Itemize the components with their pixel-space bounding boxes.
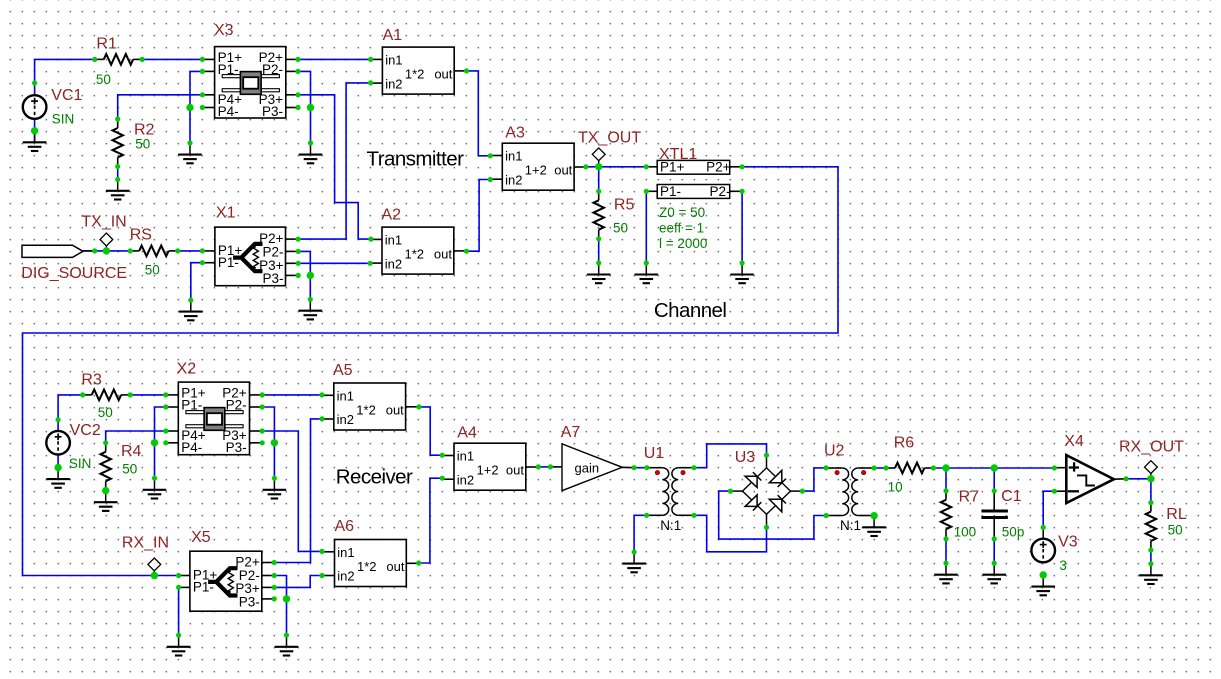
svg-text:SIN: SIN: [52, 112, 75, 127]
svg-text:VC1: VC1: [51, 87, 82, 104]
svg-text:P2-: P2-: [262, 62, 283, 77]
svg-text:in2: in2: [385, 256, 402, 271]
svg-text:50: 50: [98, 405, 113, 420]
svg-text:100: 100: [954, 525, 977, 540]
svg-text:in2: in2: [457, 472, 474, 487]
svg-text:50: 50: [613, 221, 628, 236]
svg-text:RL: RL: [1166, 506, 1187, 523]
svg-text:A2: A2: [381, 207, 401, 224]
svg-text:R5: R5: [614, 197, 635, 214]
svg-text:P3-: P3-: [262, 271, 283, 286]
svg-text:in1: in1: [385, 53, 402, 68]
svg-text:out: out: [554, 163, 572, 178]
svg-text:in1: in1: [457, 449, 474, 464]
svg-text:TX_IN: TX_IN: [81, 214, 126, 231]
svg-text:X4: X4: [1064, 433, 1084, 450]
svg-text:P3-: P3-: [226, 440, 247, 455]
svg-text:Receiver: Receiver: [336, 465, 413, 488]
svg-text:RX_OUT: RX_OUT: [1119, 438, 1184, 455]
svg-text:out: out: [506, 463, 524, 478]
svg-text:in2: in2: [337, 412, 354, 427]
svg-text:P3-: P3-: [262, 104, 283, 119]
svg-text:out: out: [386, 559, 404, 574]
svg-text:out: out: [434, 67, 452, 82]
svg-text:X2: X2: [177, 361, 197, 378]
svg-text:in2: in2: [385, 76, 402, 91]
svg-text:A6: A6: [335, 518, 355, 535]
svg-text:P1-: P1-: [218, 62, 239, 77]
svg-text:50: 50: [135, 137, 150, 152]
svg-text:50: 50: [1168, 523, 1183, 538]
svg-text:Transmitter: Transmitter: [367, 148, 465, 171]
svg-text:l = 2000: l = 2000: [659, 236, 707, 251]
svg-text:in2: in2: [505, 172, 522, 187]
svg-text:A4: A4: [457, 425, 477, 442]
svg-text:Z0 = 50: Z0 = 50: [659, 205, 705, 220]
svg-text:P1-: P1-: [218, 255, 239, 270]
svg-text:in1: in1: [505, 149, 522, 164]
svg-text:RS: RS: [130, 227, 152, 244]
svg-text:in2: in2: [337, 569, 354, 584]
svg-text:A5: A5: [333, 362, 353, 379]
svg-text:VC2: VC2: [70, 422, 101, 439]
svg-text:out: out: [386, 403, 404, 418]
svg-text:DIG_SOURCE: DIG_SOURCE: [21, 265, 127, 282]
svg-text:A1: A1: [383, 27, 403, 44]
svg-text:P2-: P2-: [226, 397, 247, 412]
svg-text:1*2: 1*2: [356, 403, 376, 418]
svg-text:N:1: N:1: [660, 518, 681, 533]
svg-text:in1: in1: [385, 233, 402, 248]
svg-text:X1: X1: [216, 205, 236, 222]
svg-text:Channel: Channel: [654, 299, 727, 322]
svg-text:50: 50: [96, 72, 111, 87]
svg-text:in1: in1: [337, 545, 354, 560]
svg-text:50: 50: [145, 263, 160, 278]
svg-text:U3: U3: [735, 449, 756, 466]
svg-text:U2: U2: [824, 443, 845, 460]
svg-text:X5: X5: [191, 529, 211, 546]
svg-text:gain: gain: [575, 460, 600, 475]
svg-text:3: 3: [1059, 558, 1067, 573]
svg-text:P1-: P1-: [181, 397, 202, 412]
svg-text:1*2: 1*2: [357, 559, 377, 574]
svg-text:P3-: P3-: [239, 595, 260, 610]
svg-text:1*2: 1*2: [405, 67, 425, 82]
svg-text:TX_OUT: TX_OUT: [578, 130, 641, 147]
svg-text:U1: U1: [644, 445, 665, 462]
svg-text:1+2: 1+2: [525, 163, 547, 178]
svg-text:A7: A7: [561, 424, 581, 441]
svg-text:10: 10: [888, 480, 903, 495]
svg-text:R7: R7: [959, 489, 980, 506]
svg-text:SIN: SIN: [69, 456, 92, 471]
svg-text:P2+: P2+: [706, 159, 731, 174]
svg-text:XTL1: XTL1: [659, 146, 697, 163]
svg-text:N:1: N:1: [840, 518, 861, 533]
svg-text:A3: A3: [505, 125, 525, 142]
svg-text:1+2: 1+2: [477, 463, 499, 478]
svg-text:X3: X3: [214, 22, 234, 39]
svg-text:eeff = 1: eeff = 1: [659, 221, 704, 236]
svg-text:R1: R1: [96, 36, 117, 53]
svg-text:50p: 50p: [1002, 525, 1025, 540]
svg-text:V3: V3: [1058, 534, 1078, 551]
svg-text:R3: R3: [81, 372, 102, 389]
svg-text:P2-: P2-: [709, 184, 730, 199]
svg-text:P1-: P1-: [660, 184, 681, 199]
svg-text:P1-: P1-: [193, 580, 214, 595]
svg-text:1*2: 1*2: [405, 247, 425, 262]
svg-text:out: out: [434, 247, 452, 262]
svg-text:RX_IN: RX_IN: [122, 535, 169, 552]
svg-text:R4: R4: [121, 443, 142, 460]
svg-text:P4-: P4-: [181, 440, 202, 455]
svg-text:in1: in1: [337, 389, 354, 404]
svg-text:C1: C1: [1001, 488, 1022, 505]
svg-text:P4-: P4-: [218, 104, 239, 119]
svg-text:50: 50: [122, 462, 137, 477]
svg-text:R6: R6: [894, 435, 915, 452]
